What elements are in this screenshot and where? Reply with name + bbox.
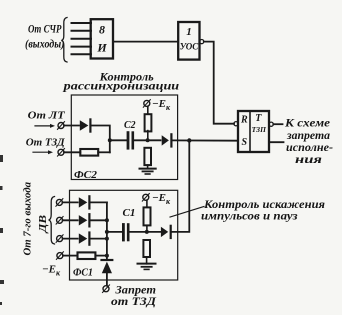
diode VD1	[80, 119, 91, 131]
svg-text:От ЛТ: От ЛТ	[28, 110, 66, 122]
wire trigger upper output	[273, 123, 282, 125]
label -Ек ФС2	[152, 98, 171, 112]
label "От СЧР (выходы)"	[25, 22, 65, 51]
junction node C2-R divider	[146, 138, 150, 142]
svg-text:С2: С2	[124, 120, 136, 131]
svg-text:И: И	[96, 41, 107, 55]
diode VD7 down to Запрет terminal	[102, 260, 113, 273]
svg-text:От ТЗД: От ТЗД	[26, 137, 65, 149]
svg-text:От СЧР: От СЧР	[28, 22, 62, 36]
AND gate "8И"	[91, 19, 113, 58]
svg-text:ния: ния	[295, 152, 322, 166]
wire R5 to -Ек terminal	[146, 200, 148, 207]
block ФС2 outline	[71, 95, 177, 180]
junction node C1-R divider	[145, 230, 149, 234]
wire bus to C1	[107, 231, 123, 233]
svg-text:T: T	[255, 113, 262, 124]
svg-text:ТЗП: ТЗП	[252, 125, 267, 134]
diode VD2	[162, 134, 172, 146]
label "Контроль рассинхронизации"	[62, 72, 179, 93]
wire СЧР input 5	[72, 53, 92, 55]
inversion bubble on R input	[234, 122, 238, 126]
arrow От ЛТ	[35, 124, 55, 128]
inversion bubble on УОС output	[200, 40, 204, 44]
svg-text:Контроль искажения: Контроль искажения	[203, 199, 325, 211]
ground ФС1	[138, 264, 156, 270]
amplifier "1 УОС"	[178, 22, 199, 60]
svg-text:8: 8	[99, 23, 105, 37]
junction bus row3	[105, 237, 109, 241]
bus wire ФС1	[106, 202, 108, 260]
svg-text:Запрет: Запрет	[114, 285, 156, 297]
leader line to Контроль искажения	[170, 207, 204, 218]
diode VD6	[161, 226, 171, 238]
terminal ДВ input 2	[56, 217, 63, 225]
diode VD4	[79, 214, 90, 226]
junction bus row2	[105, 218, 109, 222]
terminal ДВ input 1	[56, 199, 63, 207]
wire R4 to bus	[96, 255, 107, 257]
terminal От ТЗД	[58, 149, 65, 157]
terminal Запрет от ТЗД	[103, 285, 110, 293]
capacitor C2	[128, 133, 133, 149]
diode VD5	[79, 233, 90, 245]
wire VD4 to bus	[90, 219, 107, 221]
svg-text:От 7-го выхода: От 7-го выхода	[23, 182, 34, 256]
wire VD5 to bus	[90, 238, 107, 240]
label "Запрет от ТЗД"	[111, 285, 157, 308]
wire node to C2	[110, 139, 128, 141]
wire R5 to node	[146, 226, 148, 232]
wire R2 to -Ек terminal	[147, 106, 149, 113]
terminal ДВ input 3	[56, 235, 63, 243]
svg-text:рассинхронизации: рассинхронизации	[62, 81, 179, 93]
trigger T ТЗП	[238, 111, 269, 152]
wire R6 to ground	[146, 257, 148, 264]
block ФС1 outline	[70, 190, 178, 280]
label "К схеме запрета исполнения"	[284, 116, 333, 166]
wire СЧР input 3	[72, 38, 92, 40]
wire main node down to lower block output	[171, 141, 189, 232]
resistor R2 upper	[145, 114, 152, 131]
junction bus main	[105, 230, 109, 234]
svg-text:(выходы): (выходы)	[25, 37, 65, 51]
wire УОС output to R input of trigger	[204, 42, 234, 124]
svg-text:R: R	[240, 115, 248, 126]
resistor R5 upper	[144, 207, 151, 225]
wire И output to УОС input	[113, 41, 178, 43]
brace grouping ДВ inputs	[49, 197, 55, 245]
wire СЧР input 2	[72, 30, 92, 32]
wire VD2 to S input	[172, 139, 238, 141]
capacitor C1	[123, 225, 128, 241]
svg-text:импульсов и пауз: импульсов и пауз	[201, 211, 298, 223]
wire VD3 to bus	[90, 201, 107, 203]
resistor R6 lower	[143, 240, 150, 257]
diode VD3	[79, 196, 90, 208]
wire terminal3 to diode VD5	[63, 238, 78, 240]
wire R3 to ground	[147, 165, 149, 168]
wire trigger lower output	[269, 141, 284, 143]
junction node main	[187, 138, 191, 142]
svg-text:−E: −E	[152, 98, 166, 110]
svg-text:ДВ: ДВ	[38, 215, 49, 234]
wire C2 to diode VD2	[132, 139, 160, 141]
wire terminal4 to resistor R4	[63, 255, 77, 257]
svg-text:−E: −E	[152, 192, 166, 204]
inversion bubble on trigger output	[269, 122, 273, 126]
svg-text:−E: −E	[42, 264, 56, 276]
label -Ек bottom left	[42, 264, 61, 278]
wire VD7 to Запрет terminal	[106, 273, 108, 286]
resistor R4	[78, 252, 96, 259]
resistor R1	[80, 149, 98, 156]
terminal -Ек ФС2	[143, 100, 150, 108]
svg-text:S: S	[242, 137, 248, 148]
wire R1 to node	[98, 151, 110, 153]
svg-text:УОС: УОС	[180, 41, 200, 51]
ground ФС2	[140, 169, 156, 174]
brace grouping СЧР inputs	[61, 18, 67, 63]
wire VD1 to node	[91, 126, 110, 153]
terminal От ЛТ	[58, 122, 65, 130]
svg-text:ФС2: ФС2	[74, 169, 98, 181]
junction node ФС2 input	[108, 138, 112, 142]
wire СЧР input 4	[72, 46, 92, 48]
svg-text:от ТЗД: от ТЗД	[111, 296, 157, 308]
wire СЧР input 1	[72, 22, 92, 24]
junction bus row4	[105, 254, 109, 258]
wire terminal1 to diode VD3	[62, 201, 77, 203]
terminal -Ек ФС1	[142, 194, 149, 202]
wire terminal to diode VD1	[64, 125, 79, 127]
resistor R3 lower	[144, 148, 151, 165]
terminal -Ек input 4	[56, 252, 63, 260]
wire terminal to resistor R1	[64, 151, 80, 153]
label "Контроль искажения импульсов и пауз"	[201, 199, 325, 223]
wire R2 to node	[147, 131, 149, 141]
arrow От ТЗД	[33, 150, 53, 154]
wire terminal2 to diode VD4	[63, 219, 78, 221]
svg-text:1: 1	[186, 26, 192, 38]
label -Ек ФС1	[152, 192, 171, 206]
svg-text:С1: С1	[123, 208, 136, 219]
wire C1 to diode VD6	[128, 231, 160, 233]
svg-text:ФС1: ФС1	[73, 267, 93, 279]
